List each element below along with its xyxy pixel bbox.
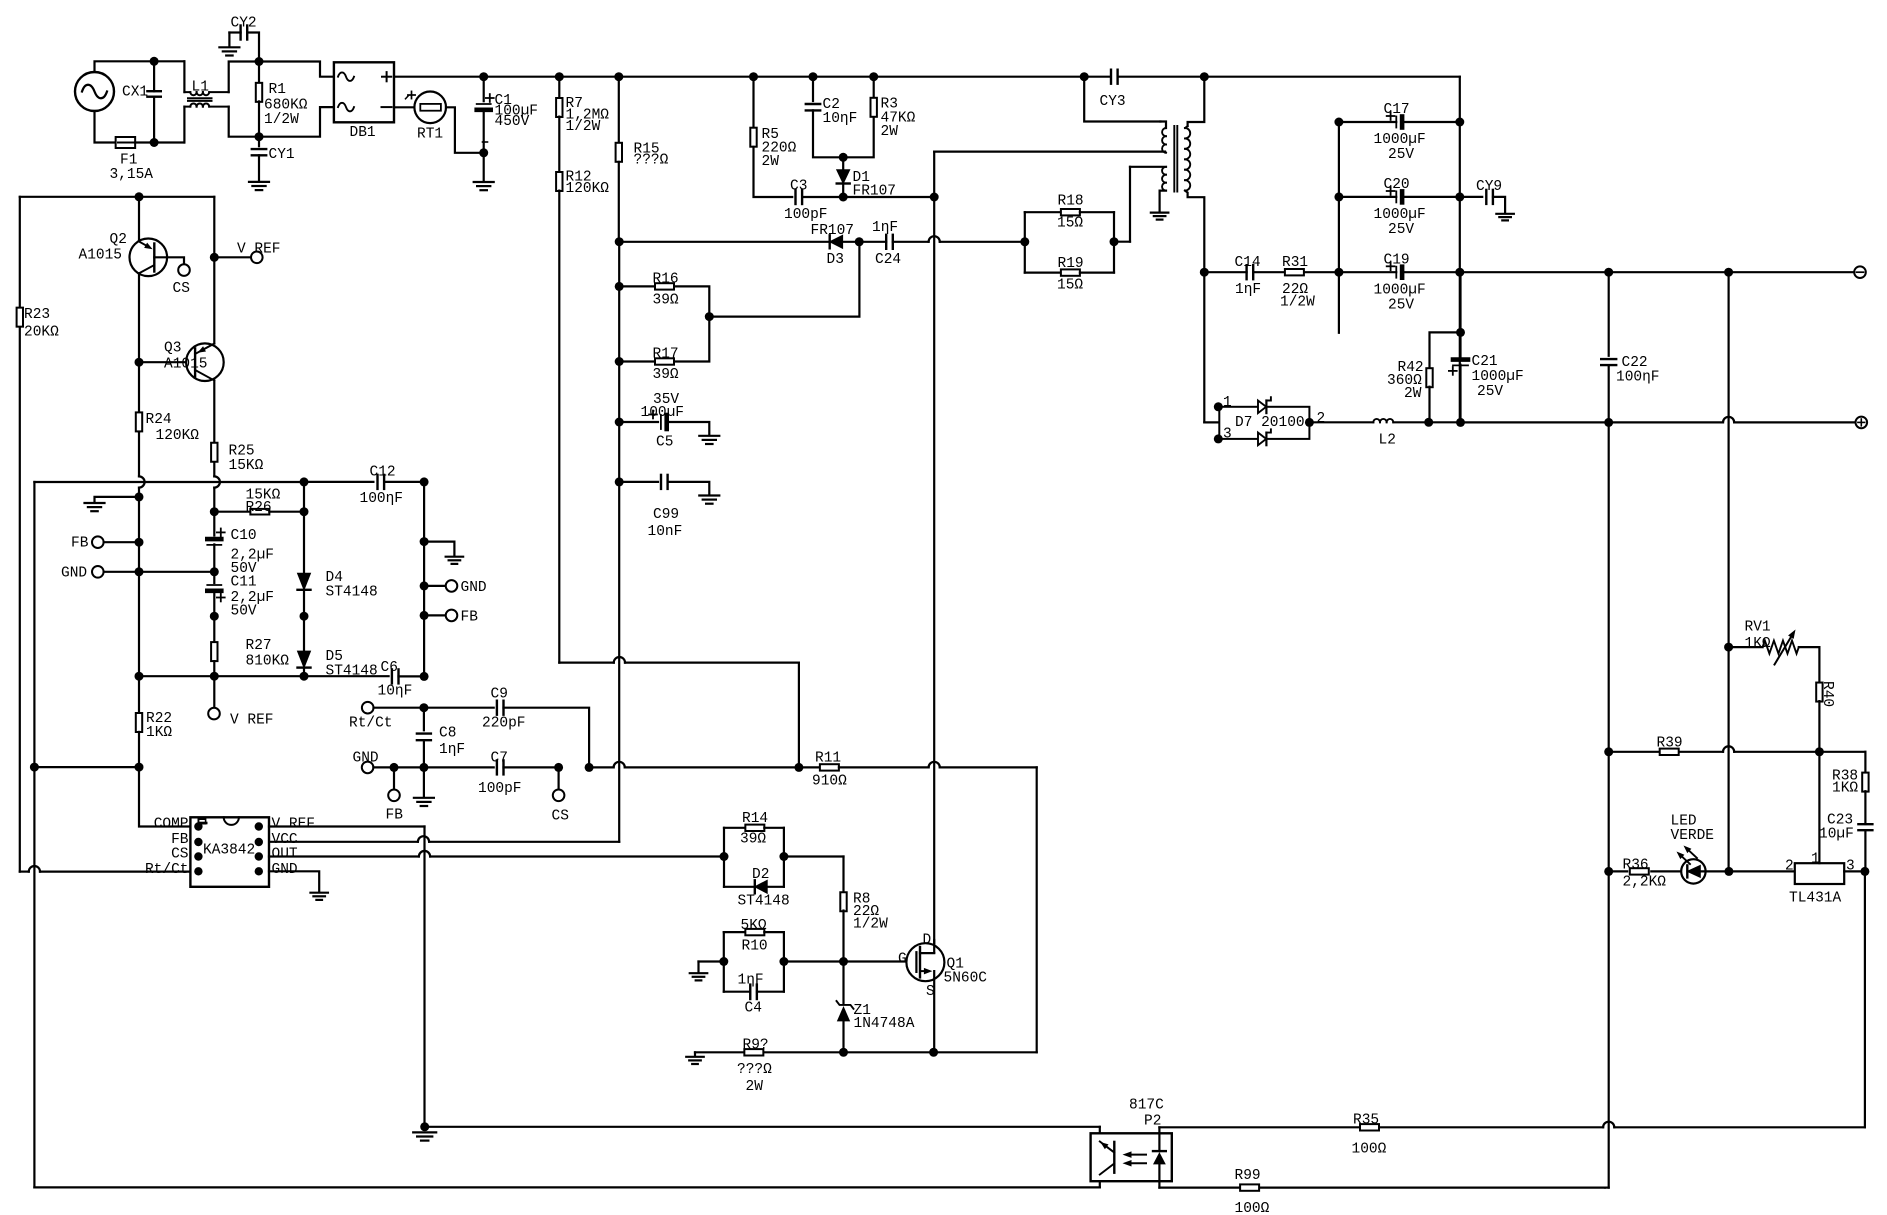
svg-text:1: 1 (1223, 395, 1232, 411)
svg-text:10nF: 10nF (648, 524, 683, 540)
svg-text:1ηF: 1ηF (872, 220, 898, 236)
svg-text:120KΩ: 120KΩ (156, 428, 200, 444)
svg-text:V REF: V REF (272, 816, 316, 832)
svg-text:100ηF: 100ηF (360, 491, 404, 507)
svg-text:C24: C24 (875, 252, 901, 268)
svg-text:CX1: CX1 (122, 84, 148, 100)
svg-text:D: D (923, 933, 932, 949)
svg-text:1/2W: 1/2W (264, 112, 299, 128)
svg-text:FB: FB (71, 536, 89, 552)
svg-text:120KΩ: 120KΩ (566, 181, 610, 197)
svg-text:GND: GND (461, 580, 487, 596)
svg-text:???Ω: ???Ω (737, 1062, 772, 1078)
svg-text:CS: CS (171, 846, 188, 862)
svg-text:R9?: R9? (743, 1038, 769, 1054)
svg-text:1KΩ: 1KΩ (1745, 636, 1771, 652)
svg-text:FB: FB (386, 808, 404, 824)
svg-text:C3: C3 (790, 179, 807, 195)
svg-text:100µF: 100µF (641, 405, 685, 421)
svg-text:ST4148: ST4148 (738, 894, 790, 910)
svg-text:R99: R99 (1235, 1168, 1261, 1184)
svg-text:FB: FB (461, 610, 479, 626)
svg-text:2W: 2W (881, 124, 899, 140)
svg-text:100Ω: 100Ω (1352, 1142, 1387, 1158)
svg-text:1ηF: 1ηF (738, 973, 764, 989)
svg-text:A1015: A1015 (164, 357, 208, 373)
svg-text:R18: R18 (1058, 194, 1084, 210)
svg-text:DB1: DB1 (350, 125, 376, 141)
svg-text:25V: 25V (1477, 384, 1503, 400)
svg-text:10ηF: 10ηF (823, 111, 858, 127)
svg-text:100pF: 100pF (784, 207, 828, 223)
svg-text:39Ω: 39Ω (653, 293, 679, 309)
svg-text:P2: P2 (1144, 1114, 1161, 1130)
svg-text:2: 2 (1785, 859, 1794, 875)
svg-text:50V: 50V (231, 604, 257, 620)
svg-text:R39: R39 (1657, 736, 1683, 752)
svg-text:L1: L1 (192, 79, 209, 95)
svg-text:15Ω: 15Ω (1057, 278, 1083, 294)
svg-text:FR107: FR107 (811, 223, 855, 239)
svg-text:2,2KΩ: 2,2KΩ (1623, 875, 1667, 891)
svg-text:220pF: 220pF (482, 716, 526, 732)
svg-text:C8: C8 (439, 726, 456, 742)
svg-text:R17: R17 (653, 347, 679, 363)
svg-text:R24: R24 (146, 412, 172, 428)
svg-text:Q3: Q3 (164, 341, 181, 357)
svg-text:VERDE: VERDE (1671, 828, 1715, 844)
svg-text:2W: 2W (1404, 386, 1422, 402)
svg-text:FR107: FR107 (853, 184, 897, 200)
svg-text:100ηF: 100ηF (1616, 370, 1660, 386)
svg-text:D3: D3 (827, 252, 844, 268)
svg-text:Rt/Ct: Rt/Ct (145, 862, 189, 878)
svg-text:3,15A: 3,15A (110, 167, 154, 183)
svg-text:10ηF: 10ηF (378, 684, 413, 700)
svg-text:ST4148: ST4148 (326, 664, 378, 680)
svg-text:G: G (898, 952, 907, 968)
svg-text:C99: C99 (653, 507, 679, 523)
svg-text:1KΩ: 1KΩ (1832, 781, 1858, 797)
svg-text:GND: GND (272, 862, 298, 878)
svg-text:R36: R36 (1623, 858, 1649, 874)
svg-text:100Ω: 100Ω (1235, 1201, 1270, 1215)
svg-text:CS: CS (173, 281, 190, 297)
svg-text:C19: C19 (1384, 253, 1410, 269)
svg-text:39Ω: 39Ω (653, 367, 679, 383)
svg-text:Q2: Q2 (110, 232, 127, 248)
svg-text:1000µF: 1000µF (1472, 369, 1524, 385)
svg-text:V REF: V REF (237, 242, 281, 258)
svg-text:C14: C14 (1235, 255, 1261, 271)
svg-text:C12: C12 (370, 465, 396, 481)
svg-text:1000µF: 1000µF (1374, 283, 1426, 299)
svg-text:RT1: RT1 (417, 127, 443, 143)
svg-text:R16: R16 (653, 272, 679, 288)
svg-text:C20: C20 (1384, 177, 1410, 193)
svg-text:2W: 2W (746, 1079, 764, 1095)
svg-text:R14: R14 (742, 811, 768, 827)
svg-text:C5: C5 (656, 435, 673, 451)
svg-text:GND: GND (61, 566, 87, 582)
svg-text:100pF: 100pF (478, 781, 522, 797)
svg-text:1/2W: 1/2W (566, 119, 601, 135)
svg-text:C11: C11 (231, 575, 257, 591)
svg-text:1/2W: 1/2W (853, 917, 888, 933)
svg-text:910Ω: 910Ω (812, 774, 847, 790)
svg-text:Rt/Ct: Rt/Ct (349, 716, 393, 732)
svg-text:2W: 2W (762, 154, 780, 170)
svg-text:810KΩ: 810KΩ (246, 654, 290, 670)
svg-text:CY3: CY3 (1100, 94, 1126, 110)
svg-text:KA3842: KA3842 (203, 843, 255, 859)
svg-text:CS: CS (552, 809, 569, 825)
svg-text:R40: R40 (1819, 681, 1835, 707)
svg-text:R31: R31 (1282, 255, 1308, 271)
svg-text:3: 3 (1223, 427, 1232, 443)
svg-text:1N4748A: 1N4748A (854, 1016, 915, 1032)
svg-text:20KΩ: 20KΩ (24, 325, 59, 341)
svg-text:C6: C6 (381, 660, 398, 676)
svg-text:25V: 25V (1388, 298, 1414, 314)
svg-text:450V: 450V (495, 114, 530, 130)
svg-text:C4: C4 (745, 1001, 762, 1017)
svg-text:817C: 817C (1129, 1098, 1164, 1114)
svg-text:1: 1 (1811, 852, 1820, 868)
svg-text:1ηF: 1ηF (1235, 282, 1261, 298)
svg-text:S: S (926, 984, 935, 1000)
svg-text:1000µF: 1000µF (1374, 207, 1426, 223)
svg-text:D2: D2 (752, 867, 769, 883)
svg-text:R11: R11 (815, 751, 841, 767)
svg-text:39Ω: 39Ω (740, 832, 766, 848)
svg-text:R1: R1 (269, 82, 286, 98)
svg-text:R23: R23 (24, 307, 50, 323)
svg-text:COMP: COMP (154, 816, 189, 832)
svg-text:15Ω: 15Ω (1057, 216, 1083, 232)
svg-text:C7: C7 (491, 751, 508, 767)
svg-text:CY1: CY1 (269, 147, 295, 163)
svg-text:C17: C17 (1384, 102, 1410, 118)
svg-text:2: 2 (1317, 411, 1326, 427)
svg-text:C10: C10 (231, 528, 257, 544)
svg-text:GND: GND (353, 751, 379, 767)
svg-text:15KΩ: 15KΩ (229, 458, 264, 474)
svg-text:V REF: V REF (230, 713, 274, 729)
svg-text:D7 20100: D7 20100 (1235, 415, 1305, 431)
svg-text:5N60C: 5N60C (944, 971, 988, 987)
svg-text:R10: R10 (742, 939, 768, 955)
svg-text:R27: R27 (246, 638, 272, 654)
svg-text:1KΩ: 1KΩ (146, 725, 172, 741)
svg-text:1/2W: 1/2W (1280, 295, 1315, 311)
svg-text:OUT: OUT (272, 846, 298, 862)
svg-text:3: 3 (1846, 859, 1855, 875)
svg-text:5KΩ: 5KΩ (741, 918, 767, 934)
svg-text:25V: 25V (1388, 147, 1414, 163)
svg-text:???Ω: ???Ω (634, 153, 669, 169)
svg-text:C21: C21 (1472, 354, 1498, 370)
svg-text:CY9: CY9 (1476, 179, 1502, 195)
svg-text:25V: 25V (1388, 222, 1414, 238)
svg-text:TL431A: TL431A (1789, 891, 1842, 907)
svg-text:CY2: CY2 (231, 16, 257, 32)
svg-text:R26: R26 (246, 500, 272, 516)
svg-text:RV1: RV1 (1745, 620, 1771, 636)
svg-text:R19: R19 (1058, 256, 1084, 272)
svg-text:1ηF: 1ηF (439, 742, 465, 758)
svg-text:R35: R35 (1353, 1113, 1379, 1129)
svg-text:C9: C9 (491, 687, 508, 703)
svg-text:L2: L2 (1379, 433, 1396, 449)
svg-text:A1015: A1015 (79, 248, 123, 264)
svg-text:ST4148: ST4148 (326, 585, 378, 601)
svg-text:10µF: 10µF (1819, 827, 1854, 843)
svg-text:1000µF: 1000µF (1374, 132, 1426, 148)
